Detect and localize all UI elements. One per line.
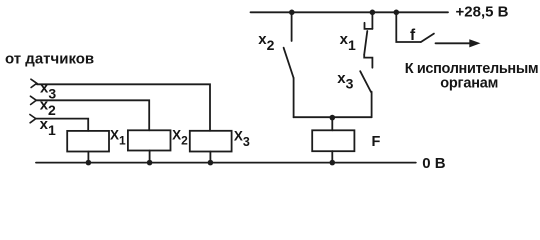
wire down to F box [331, 118, 333, 131]
input arrow x1 [30, 115, 36, 123]
input arrow x2 [30, 96, 36, 104]
relay coil F box [312, 130, 354, 151]
arrow to actuators [436, 42, 472, 44]
wire x2 branch lower [293, 78, 295, 117]
relay coil X3 box [190, 131, 232, 152]
svg-text:X2: X2 [172, 128, 188, 148]
wire input x3 row [37, 84, 210, 131]
wire X3 to rail [209, 152, 211, 163]
wire f branch stub [396, 12, 420, 42]
svg-text:X1: X1 [110, 128, 126, 148]
svg-text:x1: x1 [340, 31, 356, 53]
node junction dot to F [330, 115, 336, 121]
wire x1 branch upper stub [371, 12, 373, 29]
wire x1-x3 link step [364, 55, 372, 68]
svg-text:F: F [372, 134, 381, 150]
contact f blade [421, 34, 434, 42]
relay coil X2 box [128, 130, 171, 150]
relay coil X1 box [67, 131, 109, 152]
node dot X1 to rail [86, 160, 92, 166]
contact x1 blade [364, 31, 367, 55]
node dot X3 to rail [208, 160, 214, 166]
node junction dot x1 branch [370, 10, 376, 16]
wire 0V bottom rail [36, 162, 416, 164]
svg-text:+28,5 В: +28,5 В [456, 3, 509, 20]
node junction dot f branch [394, 10, 400, 16]
svg-text:органам: органам [440, 76, 498, 92]
node dot X2 to rail [147, 160, 153, 166]
wire x2 branch upper stub [291, 12, 293, 41]
wire input x1 row [36, 119, 88, 131]
svg-text:0 В: 0 В [422, 155, 446, 172]
wire +28,5V top rail [251, 11, 449, 13]
node dot F to rail [330, 160, 336, 166]
wire parallel bottom joining x2 and x3 branches [294, 116, 372, 118]
svg-text:f: f [410, 27, 416, 44]
contact x2 blade [284, 48, 294, 78]
wire X1 to rail [87, 152, 89, 163]
svg-text:x3: x3 [337, 70, 353, 92]
svg-text:X3: X3 [234, 128, 250, 149]
wire x3 branch lower [371, 92, 373, 118]
svg-text:от датчиков: от датчиков [5, 51, 94, 68]
input arrow x3 [31, 79, 37, 87]
wire F box to 0V rail [331, 151, 333, 162]
node junction dot x2 branch [289, 10, 295, 16]
svg-text:x2: x2 [258, 31, 274, 53]
wire X2 to rail [149, 151, 151, 163]
wire input x2 row [36, 100, 149, 130]
contact x1 fixed hook [365, 23, 373, 29]
contact x3 blade [360, 71, 371, 92]
